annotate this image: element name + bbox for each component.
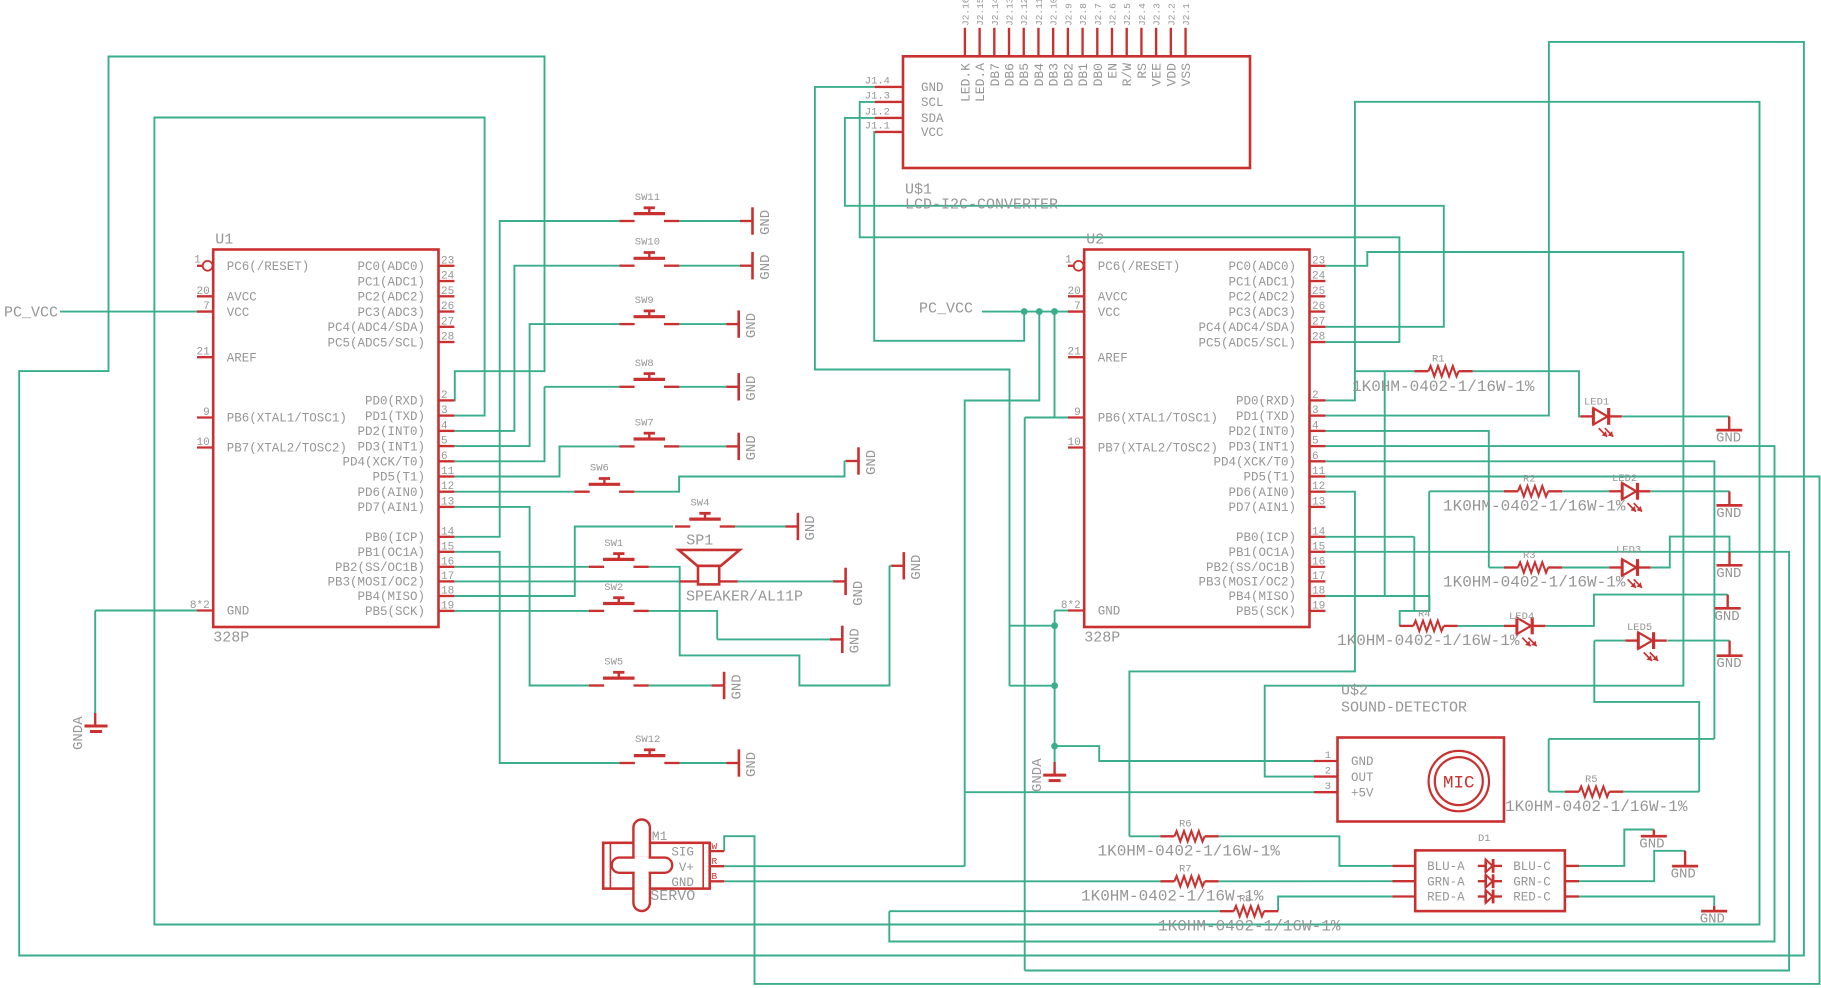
svg-text:J2.6: J2.6 bbox=[1108, 3, 1119, 26]
svg-text:24: 24 bbox=[1312, 271, 1326, 283]
svg-text:PC0(ADC0): PC0(ADC0) bbox=[357, 260, 425, 274]
svg-text:GNDA: GNDA bbox=[1030, 758, 1046, 792]
svg-text:9: 9 bbox=[1074, 407, 1081, 419]
svg-text:DB2: DB2 bbox=[1061, 63, 1076, 86]
svg-text:SW5: SW5 bbox=[604, 657, 623, 669]
svg-text:27: 27 bbox=[441, 316, 454, 328]
svg-text:PD6(AIN0): PD6(AIN0) bbox=[1228, 486, 1296, 500]
svg-text:M1: M1 bbox=[652, 829, 668, 844]
svg-text:1K0HM-0402-1/16W-1%: 1K0HM-0402-1/16W-1% bbox=[1443, 498, 1626, 516]
svg-text:3: 3 bbox=[1325, 781, 1331, 793]
svg-text:23: 23 bbox=[1312, 255, 1325, 267]
svg-text:6: 6 bbox=[441, 451, 448, 463]
svg-text:SW10: SW10 bbox=[635, 237, 660, 249]
svg-text:GND: GND bbox=[909, 555, 925, 580]
svg-text:J2.8: J2.8 bbox=[1078, 3, 1089, 26]
svg-text:GND: GND bbox=[227, 605, 250, 619]
svg-text:15: 15 bbox=[1312, 541, 1325, 553]
svg-text:J2.9: J2.9 bbox=[1063, 3, 1074, 26]
svg-text:15: 15 bbox=[441, 541, 454, 553]
svg-text:U2: U2 bbox=[1086, 232, 1104, 249]
svg-text:SDA: SDA bbox=[921, 112, 944, 126]
svg-text:11: 11 bbox=[1312, 466, 1326, 478]
svg-text:5: 5 bbox=[1312, 436, 1319, 448]
svg-text:12: 12 bbox=[441, 481, 454, 493]
svg-text:RED-A: RED-A bbox=[1427, 891, 1465, 905]
svg-text:U1: U1 bbox=[215, 232, 233, 249]
svg-text:GND: GND bbox=[1716, 431, 1741, 447]
svg-text:J1.4: J1.4 bbox=[865, 76, 890, 88]
svg-text:1: 1 bbox=[1065, 254, 1072, 266]
svg-text:18: 18 bbox=[1312, 586, 1325, 598]
svg-text:GND: GND bbox=[1716, 656, 1741, 672]
svg-text:GND: GND bbox=[744, 313, 760, 338]
svg-text:J2.12: J2.12 bbox=[1019, 0, 1030, 26]
svg-text:D1: D1 bbox=[1478, 833, 1491, 845]
svg-text:OUT: OUT bbox=[1351, 771, 1374, 785]
svg-text:R/W: R/W bbox=[1120, 63, 1135, 87]
svg-text:B: B bbox=[712, 871, 718, 882]
svg-text:PB3(MOSI/OC2): PB3(MOSI/OC2) bbox=[1198, 576, 1296, 590]
svg-text:PB1(OC1A): PB1(OC1A) bbox=[357, 546, 425, 560]
svg-text:GND: GND bbox=[864, 450, 880, 475]
svg-text:9: 9 bbox=[203, 407, 210, 419]
svg-text:24: 24 bbox=[441, 271, 455, 283]
svg-text:PD2(INT0): PD2(INT0) bbox=[1228, 425, 1296, 439]
svg-text:SIG: SIG bbox=[671, 846, 694, 860]
svg-text:V+: V+ bbox=[679, 861, 694, 875]
svg-text:PC3(ADC3): PC3(ADC3) bbox=[1228, 306, 1296, 320]
svg-text:SW1: SW1 bbox=[604, 538, 623, 550]
svg-text:GND: GND bbox=[851, 581, 867, 606]
svg-text:1K0HM-0402-1/16W-1%: 1K0HM-0402-1/16W-1% bbox=[1158, 917, 1341, 935]
svg-text:PB2(SS/OC1B): PB2(SS/OC1B) bbox=[335, 561, 425, 575]
svg-text:R5: R5 bbox=[1585, 774, 1598, 786]
svg-text:GND: GND bbox=[803, 515, 819, 540]
svg-text:328P: 328P bbox=[213, 630, 249, 647]
svg-text:AVCC: AVCC bbox=[227, 291, 257, 305]
svg-text:PD6(AIN0): PD6(AIN0) bbox=[357, 486, 425, 500]
svg-text:+5V: +5V bbox=[1351, 786, 1374, 800]
svg-text:PC0(ADC0): PC0(ADC0) bbox=[1228, 260, 1296, 274]
svg-text:8*2: 8*2 bbox=[1061, 600, 1081, 612]
svg-text:R: R bbox=[712, 856, 718, 867]
svg-text:W: W bbox=[712, 841, 718, 852]
svg-text:DB5: DB5 bbox=[1017, 63, 1032, 86]
svg-text:PD5(T1): PD5(T1) bbox=[372, 471, 425, 485]
svg-text:GND: GND bbox=[744, 435, 760, 460]
svg-text:PB4(MISO): PB4(MISO) bbox=[357, 590, 425, 604]
svg-text:MIC: MIC bbox=[1443, 773, 1475, 793]
svg-text:PD1(TXD): PD1(TXD) bbox=[365, 410, 425, 424]
svg-text:19: 19 bbox=[441, 600, 454, 612]
svg-text:GND: GND bbox=[1700, 912, 1725, 928]
svg-text:1K0HM-0402-1/16W-1%: 1K0HM-0402-1/16W-1% bbox=[1098, 843, 1281, 861]
svg-text:VCC: VCC bbox=[1098, 306, 1121, 320]
svg-text:LED3: LED3 bbox=[1616, 544, 1641, 556]
svg-text:BLU-C: BLU-C bbox=[1513, 860, 1551, 874]
svg-text:GND: GND bbox=[1715, 609, 1740, 625]
svg-text:J1.1: J1.1 bbox=[865, 121, 890, 133]
svg-text:EN: EN bbox=[1106, 63, 1121, 79]
svg-text:10: 10 bbox=[1067, 437, 1080, 449]
svg-text:DB1: DB1 bbox=[1076, 63, 1091, 87]
svg-text:R4: R4 bbox=[1418, 608, 1431, 620]
svg-text:VCC: VCC bbox=[921, 126, 944, 140]
svg-text:J2.15: J2.15 bbox=[975, 0, 986, 26]
svg-text:PD0(RXD): PD0(RXD) bbox=[365, 395, 425, 409]
svg-text:J1.3: J1.3 bbox=[865, 91, 890, 103]
svg-text:PD1(TXD): PD1(TXD) bbox=[1236, 410, 1296, 424]
svg-text:25: 25 bbox=[1312, 286, 1325, 298]
svg-text:J2.4: J2.4 bbox=[1137, 3, 1148, 26]
svg-text:J2.11: J2.11 bbox=[1034, 0, 1045, 26]
svg-text:LCD-I2C-CONVERTER: LCD-I2C-CONVERTER bbox=[905, 197, 1058, 214]
svg-text:VCC: VCC bbox=[227, 306, 250, 320]
svg-text:GND: GND bbox=[1671, 867, 1696, 883]
svg-text:23: 23 bbox=[441, 255, 454, 267]
svg-text:J2.7: J2.7 bbox=[1093, 3, 1104, 26]
svg-text:PC6(/RESET): PC6(/RESET) bbox=[227, 260, 310, 274]
svg-text:25: 25 bbox=[441, 286, 454, 298]
svg-text:2: 2 bbox=[441, 390, 448, 402]
svg-text:LED.A: LED.A bbox=[973, 63, 988, 102]
svg-text:26: 26 bbox=[441, 301, 454, 313]
svg-text:17: 17 bbox=[441, 571, 454, 583]
svg-text:21: 21 bbox=[1067, 347, 1081, 359]
svg-text:PB1(OC1A): PB1(OC1A) bbox=[1228, 546, 1296, 560]
svg-text:R8: R8 bbox=[1239, 894, 1252, 906]
svg-text:20: 20 bbox=[196, 286, 209, 298]
svg-text:SW11: SW11 bbox=[635, 192, 660, 204]
svg-text:SW8: SW8 bbox=[635, 358, 654, 370]
svg-text:12: 12 bbox=[1312, 481, 1325, 493]
svg-text:SERVO: SERVO bbox=[650, 888, 695, 905]
svg-text:PC4(ADC4/SDA): PC4(ADC4/SDA) bbox=[1198, 321, 1296, 335]
svg-text:SPEAKER/AL11P: SPEAKER/AL11P bbox=[686, 589, 803, 606]
svg-text:PB7(XTAL2/TOSC2): PB7(XTAL2/TOSC2) bbox=[227, 442, 347, 456]
svg-text:VEE: VEE bbox=[1150, 63, 1165, 87]
svg-text:14: 14 bbox=[441, 526, 455, 538]
svg-text:J1.2: J1.2 bbox=[865, 107, 890, 119]
svg-text:8*2: 8*2 bbox=[190, 600, 210, 612]
svg-text:AREF: AREF bbox=[227, 351, 257, 365]
svg-text:20: 20 bbox=[1067, 286, 1080, 298]
svg-text:PB0(ICP): PB0(ICP) bbox=[365, 531, 425, 545]
svg-text:3: 3 bbox=[1312, 405, 1319, 417]
svg-text:DB3: DB3 bbox=[1047, 63, 1062, 86]
svg-text:PC_VCC: PC_VCC bbox=[4, 305, 58, 322]
svg-text:AVCC: AVCC bbox=[1098, 291, 1128, 305]
svg-text:GND: GND bbox=[744, 752, 760, 777]
svg-text:21: 21 bbox=[196, 347, 210, 359]
svg-text:SP1: SP1 bbox=[686, 533, 713, 550]
svg-text:J2.14: J2.14 bbox=[990, 0, 1001, 26]
svg-text:VSS: VSS bbox=[1179, 63, 1194, 87]
svg-text:PB6(XTAL1/TOSC1): PB6(XTAL1/TOSC1) bbox=[227, 412, 347, 426]
svg-text:13: 13 bbox=[441, 496, 454, 508]
svg-text:PD4(XCK/T0): PD4(XCK/T0) bbox=[342, 456, 425, 470]
svg-text:27: 27 bbox=[1312, 316, 1325, 328]
svg-text:GND: GND bbox=[921, 81, 944, 95]
svg-text:14: 14 bbox=[1312, 526, 1326, 538]
svg-text:SW7: SW7 bbox=[635, 417, 654, 429]
svg-text:J2.10: J2.10 bbox=[1049, 0, 1060, 26]
svg-text:PC6(/RESET): PC6(/RESET) bbox=[1098, 260, 1181, 274]
svg-text:GND: GND bbox=[1351, 755, 1374, 769]
svg-text:28: 28 bbox=[1312, 332, 1325, 344]
svg-text:PD7(AIN1): PD7(AIN1) bbox=[1228, 501, 1296, 515]
svg-text:GRN-C: GRN-C bbox=[1513, 875, 1551, 889]
svg-text:SOUND-DETECTOR: SOUND-DETECTOR bbox=[1341, 700, 1467, 717]
svg-text:PC4(ADC4/SDA): PC4(ADC4/SDA) bbox=[327, 321, 425, 335]
svg-text:PD5(T1): PD5(T1) bbox=[1243, 471, 1296, 485]
svg-text:GND: GND bbox=[1639, 837, 1664, 853]
svg-text:GND: GND bbox=[1716, 566, 1741, 582]
svg-text:U$2: U$2 bbox=[1341, 683, 1368, 700]
svg-text:1K0HM-0402-1/16W-1%: 1K0HM-0402-1/16W-1% bbox=[1081, 888, 1264, 906]
svg-text:RED-C: RED-C bbox=[1513, 891, 1551, 905]
svg-text:PB7(XTAL2/TOSC2): PB7(XTAL2/TOSC2) bbox=[1098, 442, 1218, 456]
svg-text:VDD: VDD bbox=[1164, 63, 1179, 87]
svg-text:1K0HM-0402-1/16W-1%: 1K0HM-0402-1/16W-1% bbox=[1352, 378, 1535, 396]
svg-text:28: 28 bbox=[441, 332, 454, 344]
svg-text:SW2: SW2 bbox=[604, 582, 623, 594]
svg-text:10: 10 bbox=[196, 437, 209, 449]
svg-text:GND: GND bbox=[758, 254, 774, 279]
svg-text:AREF: AREF bbox=[1098, 351, 1128, 365]
svg-text:19: 19 bbox=[1312, 600, 1325, 612]
svg-text:PC2(ADC2): PC2(ADC2) bbox=[357, 291, 425, 305]
svg-text:BLU-A: BLU-A bbox=[1427, 860, 1465, 874]
svg-text:1K0HM-0402-1/16W-1%: 1K0HM-0402-1/16W-1% bbox=[1337, 632, 1520, 650]
svg-text:PD7(AIN1): PD7(AIN1) bbox=[357, 501, 425, 515]
svg-text:1K0HM-0402-1/16W-1%: 1K0HM-0402-1/16W-1% bbox=[1443, 574, 1626, 592]
svg-text:7: 7 bbox=[1074, 301, 1081, 313]
svg-text:PB0(ICP): PB0(ICP) bbox=[1236, 531, 1296, 545]
svg-text:PC1(ADC1): PC1(ADC1) bbox=[357, 275, 425, 289]
svg-text:1: 1 bbox=[1325, 750, 1331, 762]
svg-text:R6: R6 bbox=[1179, 819, 1192, 831]
svg-text:R7: R7 bbox=[1179, 864, 1192, 876]
svg-text:328P: 328P bbox=[1084, 630, 1120, 647]
svg-text:PC_VCC: PC_VCC bbox=[919, 301, 973, 318]
svg-text:GNDA: GNDA bbox=[71, 716, 87, 750]
svg-text:SW4: SW4 bbox=[691, 498, 710, 510]
svg-text:RS: RS bbox=[1135, 63, 1150, 79]
svg-text:J2.13: J2.13 bbox=[1005, 0, 1016, 26]
svg-text:LED2: LED2 bbox=[1612, 473, 1637, 485]
svg-text:11: 11 bbox=[441, 466, 455, 478]
svg-text:R2: R2 bbox=[1523, 474, 1536, 486]
svg-text:2: 2 bbox=[1325, 765, 1331, 777]
svg-text:GND: GND bbox=[1716, 506, 1741, 522]
svg-text:LED.K: LED.K bbox=[958, 63, 973, 102]
svg-text:J2.3: J2.3 bbox=[1152, 3, 1163, 26]
svg-text:J2.1: J2.1 bbox=[1181, 3, 1192, 26]
svg-text:PC2(ADC2): PC2(ADC2) bbox=[1228, 291, 1296, 305]
svg-text:LED4: LED4 bbox=[1509, 611, 1534, 623]
svg-text:R3: R3 bbox=[1523, 550, 1536, 562]
svg-text:PB5(SCK): PB5(SCK) bbox=[365, 605, 425, 619]
svg-text:LED1: LED1 bbox=[1584, 397, 1609, 409]
svg-text:7: 7 bbox=[203, 301, 210, 313]
svg-text:DB4: DB4 bbox=[1032, 63, 1047, 87]
svg-text:PD4(XCK/T0): PD4(XCK/T0) bbox=[1213, 456, 1296, 470]
svg-text:PD3(INT1): PD3(INT1) bbox=[357, 440, 425, 454]
svg-text:4: 4 bbox=[441, 420, 448, 432]
svg-text:PD0(RXD): PD0(RXD) bbox=[1236, 395, 1296, 409]
svg-text:6: 6 bbox=[1312, 451, 1319, 463]
svg-text:LED5: LED5 bbox=[1627, 622, 1652, 634]
svg-text:1K0HM-0402-1/16W-1%: 1K0HM-0402-1/16W-1% bbox=[1505, 798, 1688, 816]
svg-text:SW6: SW6 bbox=[590, 463, 609, 475]
svg-text:PD2(INT0): PD2(INT0) bbox=[357, 425, 425, 439]
svg-text:16: 16 bbox=[441, 556, 454, 568]
svg-text:PB6(XTAL1/TOSC1): PB6(XTAL1/TOSC1) bbox=[1098, 412, 1218, 426]
svg-text:PB2(SS/OC1B): PB2(SS/OC1B) bbox=[1206, 561, 1296, 575]
svg-text:PC5(ADC5/SCL): PC5(ADC5/SCL) bbox=[1198, 336, 1296, 350]
svg-text:PC1(ADC1): PC1(ADC1) bbox=[1228, 275, 1296, 289]
svg-text:DB0: DB0 bbox=[1091, 63, 1106, 86]
svg-text:GND: GND bbox=[1098, 605, 1121, 619]
svg-text:17: 17 bbox=[1312, 571, 1325, 583]
svg-text:GND: GND bbox=[758, 210, 774, 235]
svg-text:J2.16: J2.16 bbox=[960, 0, 971, 26]
svg-text:PB4(MISO): PB4(MISO) bbox=[1228, 590, 1296, 604]
svg-text:3: 3 bbox=[441, 405, 448, 417]
svg-text:PB3(MOSI/OC2): PB3(MOSI/OC2) bbox=[327, 576, 425, 590]
svg-text:GND: GND bbox=[744, 376, 760, 401]
svg-text:2: 2 bbox=[1312, 390, 1319, 402]
svg-text:PB5(SCK): PB5(SCK) bbox=[1236, 605, 1296, 619]
svg-text:18: 18 bbox=[441, 586, 454, 598]
svg-text:13: 13 bbox=[1312, 496, 1325, 508]
svg-text:DB7: DB7 bbox=[988, 63, 1003, 86]
svg-text:R1: R1 bbox=[1432, 354, 1445, 366]
svg-text:PC3(ADC3): PC3(ADC3) bbox=[357, 306, 425, 320]
svg-text:16: 16 bbox=[1312, 556, 1325, 568]
svg-text:DB6: DB6 bbox=[1003, 63, 1018, 86]
svg-text:PC5(ADC5/SCL): PC5(ADC5/SCL) bbox=[327, 336, 425, 350]
svg-text:SW9: SW9 bbox=[635, 295, 654, 307]
svg-text:GND: GND bbox=[729, 674, 745, 699]
svg-text:J2.2: J2.2 bbox=[1166, 3, 1177, 26]
svg-text:26: 26 bbox=[1312, 301, 1325, 313]
svg-text:5: 5 bbox=[441, 436, 448, 448]
svg-text:4: 4 bbox=[1312, 420, 1319, 432]
svg-text:SW12: SW12 bbox=[635, 734, 660, 746]
svg-text:SCL: SCL bbox=[921, 96, 944, 110]
svg-text:J2.5: J2.5 bbox=[1122, 3, 1133, 26]
svg-text:1: 1 bbox=[194, 254, 201, 266]
svg-text:PD3(INT1): PD3(INT1) bbox=[1228, 440, 1296, 454]
svg-text:GRN-A: GRN-A bbox=[1427, 875, 1465, 889]
svg-text:GND: GND bbox=[848, 628, 864, 653]
